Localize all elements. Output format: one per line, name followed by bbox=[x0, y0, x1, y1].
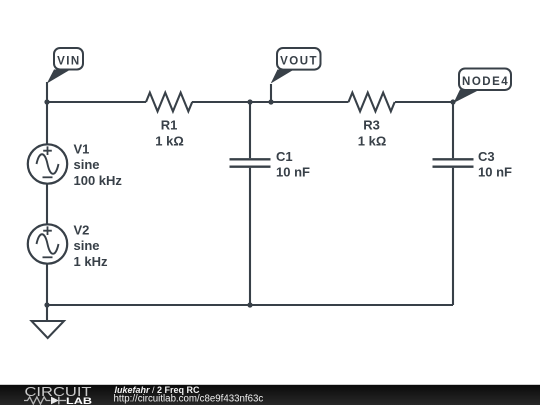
wire V1 bottom to V2 top bbox=[46, 184, 48, 225]
node junction C1 bottom bbox=[247, 302, 252, 307]
node VOUT junction bbox=[268, 99, 273, 104]
node junction C1 top bbox=[247, 99, 252, 104]
svg-text:sine: sine bbox=[74, 238, 100, 253]
resistor R3 bbox=[349, 93, 395, 149]
svg-text:R3: R3 bbox=[363, 118, 380, 133]
svg-text:10 nF: 10 nF bbox=[478, 164, 512, 179]
svg-text:C3: C3 bbox=[478, 149, 495, 164]
svg-text:1 kHz: 1 kHz bbox=[74, 254, 108, 269]
svg-text:NODE4: NODE4 bbox=[462, 76, 509, 88]
wire VOUT node to C1 top bbox=[249, 102, 251, 158]
svg-text:http://circuitlab.com/c8e9f433: http://circuitlab.com/c8e9f433nf63c bbox=[114, 393, 264, 404]
wire R1 to R3 horizontal bbox=[192, 101, 349, 103]
net label VOUT bbox=[271, 48, 321, 84]
voltage source V2 bbox=[28, 222, 108, 269]
wire V2 bottom to ground rail bbox=[46, 264, 48, 306]
wire top-left horizontal VIN to R1 bbox=[47, 101, 146, 103]
resistor R1 bbox=[146, 93, 192, 149]
svg-text:R1: R1 bbox=[161, 118, 178, 133]
wire C1 bottom to ground rail bbox=[249, 168, 251, 305]
svg-text:1 kΩ: 1 kΩ bbox=[358, 134, 387, 149]
wire bottom ground rail bbox=[47, 304, 453, 306]
capacitor C1 bbox=[230, 149, 311, 180]
svg-text:V1: V1 bbox=[74, 141, 90, 156]
wire C3 bottom to ground rail bbox=[452, 168, 454, 305]
svg-text:C1: C1 bbox=[276, 149, 293, 164]
wire NODE4 to C3 top bbox=[452, 102, 454, 158]
ground bbox=[32, 305, 65, 338]
svg-text:VIN: VIN bbox=[57, 56, 81, 68]
svg-text:VOUT: VOUT bbox=[280, 56, 318, 68]
net label NODE4 bbox=[454, 69, 512, 104]
svg-text:sine: sine bbox=[74, 157, 100, 172]
svg-text:LAB: LAB bbox=[66, 396, 92, 405]
wire VIN to V1 top bbox=[46, 102, 48, 145]
svg-text:100 kHz: 100 kHz bbox=[74, 173, 123, 188]
node VIN junction bbox=[44, 99, 49, 104]
node ground junction bbox=[44, 302, 49, 307]
net label VIN bbox=[47, 48, 83, 84]
wire R3 to NODE4 horizontal bbox=[395, 101, 453, 103]
wire VIN label stub bbox=[46, 82, 48, 102]
voltage source V1 bbox=[28, 141, 123, 188]
capacitor C3 bbox=[433, 149, 513, 180]
svg-text:10 nF: 10 nF bbox=[276, 164, 310, 179]
svg-text:1 kΩ: 1 kΩ bbox=[155, 134, 184, 149]
CircuitLab logo resistor-diode glyph bbox=[24, 397, 66, 405]
svg-text:V2: V2 bbox=[74, 222, 90, 237]
wire VOUT label stub bbox=[270, 84, 272, 102]
node NODE4 junction bbox=[450, 99, 455, 104]
